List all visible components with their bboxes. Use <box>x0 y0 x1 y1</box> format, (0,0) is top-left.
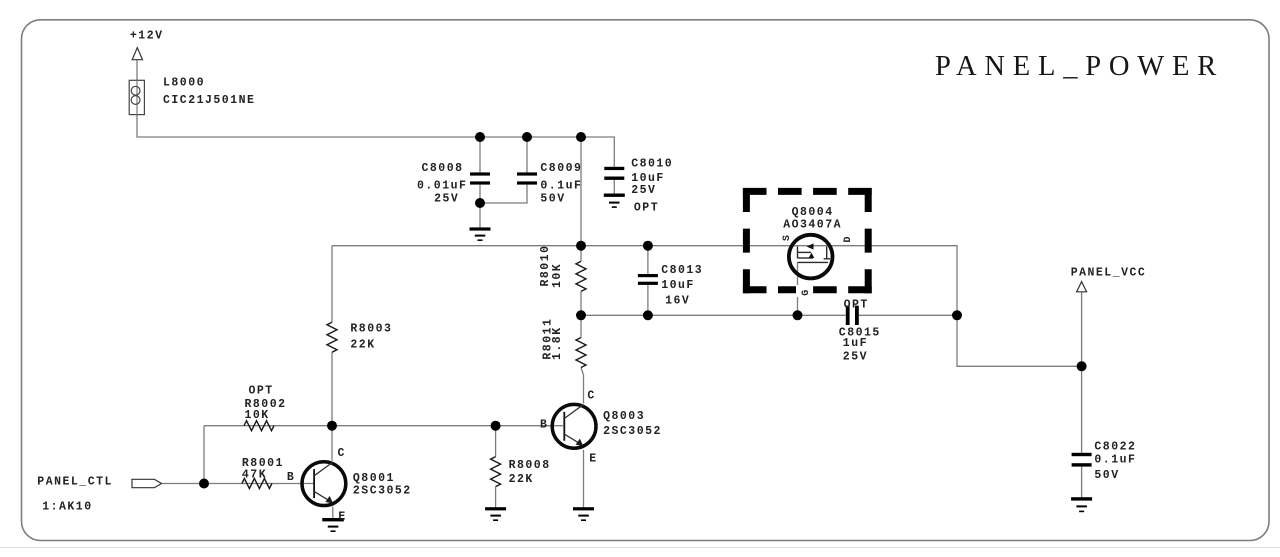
svg-text:C8009: C8009 <box>540 162 582 175</box>
svg-text:C: C <box>587 389 595 402</box>
svg-text:1.8K: 1.8K <box>551 326 564 360</box>
svg-text:AO3407A: AO3407A <box>783 219 842 232</box>
svg-text:R8003: R8003 <box>350 323 392 336</box>
svg-text:OPT: OPT <box>249 384 274 397</box>
svg-text:C8010: C8010 <box>631 158 673 171</box>
svg-text:22K: 22K <box>350 339 375 352</box>
svg-text:C8022: C8022 <box>1094 441 1136 454</box>
svg-text:L8000: L8000 <box>163 77 205 90</box>
svg-text:50V: 50V <box>540 193 565 206</box>
svg-text:25V: 25V <box>843 350 868 363</box>
svg-text:Q8001: Q8001 <box>353 472 395 485</box>
svg-text:R8008: R8008 <box>509 459 551 472</box>
svg-text:OPT: OPT <box>634 202 659 215</box>
svg-text:PANEL_VCC: PANEL_VCC <box>1071 267 1147 280</box>
svg-text:0.01uF: 0.01uF <box>417 180 467 193</box>
svg-text:10uF: 10uF <box>661 279 695 292</box>
svg-text:0.1uF: 0.1uF <box>540 180 582 193</box>
svg-text:D: D <box>843 235 854 243</box>
svg-text:47K: 47K <box>242 468 267 481</box>
svg-text:+12V: +12V <box>130 29 164 42</box>
svg-text:S: S <box>782 233 793 241</box>
svg-text:E: E <box>338 511 346 524</box>
svg-text:PANEL_POWER: PANEL_POWER <box>935 51 1224 82</box>
svg-text:22K: 22K <box>509 473 534 486</box>
svg-text:B: B <box>540 418 548 431</box>
svg-text:C: C <box>338 447 346 460</box>
svg-text:10K: 10K <box>551 263 564 288</box>
svg-text:C8008: C8008 <box>422 162 464 175</box>
svg-text:PANEL_CTL: PANEL_CTL <box>37 476 113 489</box>
svg-text:10K: 10K <box>245 409 270 422</box>
svg-text:2SC3052: 2SC3052 <box>603 425 662 438</box>
svg-text:CIC21J501NE: CIC21J501NE <box>163 94 255 107</box>
svg-text:1uF: 1uF <box>843 337 868 350</box>
svg-text:50V: 50V <box>1094 469 1119 482</box>
svg-text:2SC3052: 2SC3052 <box>353 485 412 498</box>
svg-text:E: E <box>589 453 597 466</box>
svg-text:C8013: C8013 <box>661 264 703 277</box>
svg-text:1:AK10: 1:AK10 <box>42 501 92 514</box>
svg-text:25V: 25V <box>631 184 656 197</box>
svg-text:B: B <box>287 471 295 484</box>
svg-text:0.1uF: 0.1uF <box>1094 453 1136 466</box>
svg-text:Q8003: Q8003 <box>603 410 645 423</box>
svg-text:OPT: OPT <box>844 299 869 312</box>
svg-text:16V: 16V <box>665 294 690 307</box>
svg-text:Q8004: Q8004 <box>792 206 834 219</box>
svg-text:25V: 25V <box>434 193 459 206</box>
svg-text:G: G <box>801 288 812 296</box>
